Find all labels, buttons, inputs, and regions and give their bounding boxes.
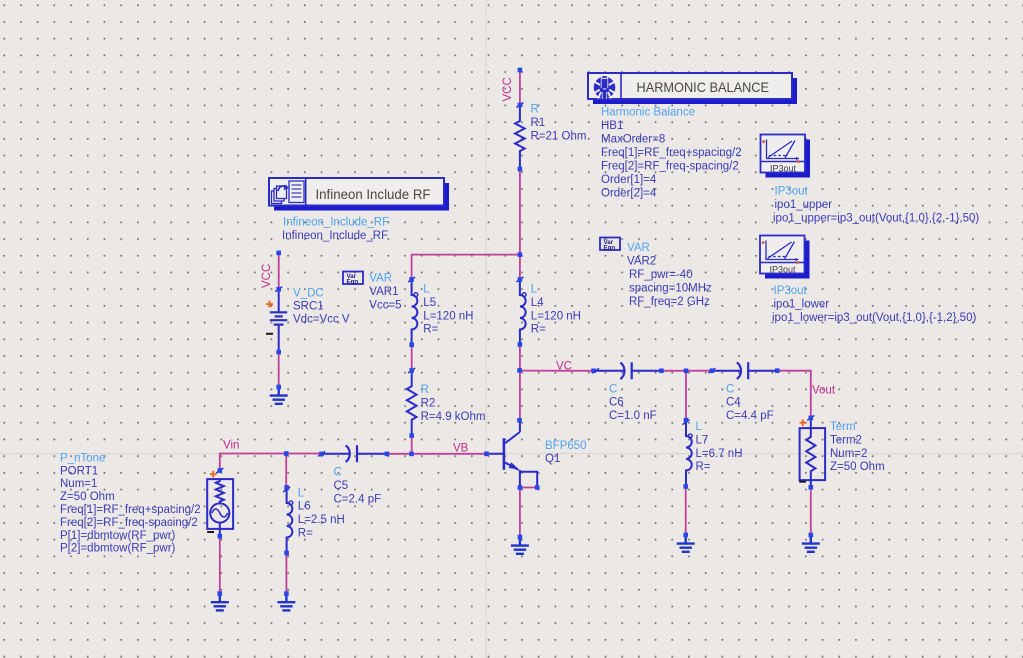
- wire R1 to trunk junction: [519, 169, 521, 255]
- label C4 values: [726, 383, 774, 422]
- ground under PORT1: [211, 594, 229, 611]
- svg-text:L: L: [423, 284, 430, 296]
- svg-text:C: C: [334, 467, 342, 479]
- pin ticks: [216, 103, 814, 493]
- svg-text:VCC: VCC: [261, 264, 273, 288]
- svg-text:Order[1]=4: Order[1]=4: [601, 174, 657, 186]
- wire VC junction to collector: [519, 370, 521, 420]
- svg-text:L: L: [298, 487, 305, 499]
- IP3out upper block: [761, 135, 811, 178]
- svg-text:R2: R2: [421, 397, 436, 409]
- svg-text:L=6.7 nH: L=6.7 nH: [696, 448, 743, 460]
- svg-text:PORT1: PORT1: [60, 465, 98, 477]
- label L6 values: [298, 487, 345, 539]
- resistor R2: [407, 371, 417, 436]
- svg-text:C: C: [609, 383, 617, 395]
- svg-text:Z=50 Ohm: Z=50 Ohm: [60, 491, 115, 503]
- label VAR2 values: [627, 242, 712, 308]
- svg-text:V_DC: V_DC: [293, 288, 324, 300]
- svg-text:P_nTone: P_nTone: [60, 452, 105, 464]
- svg-text:Vcc=5: Vcc=5: [369, 299, 401, 311]
- svg-text:R: R: [531, 104, 539, 116]
- wire SRC1 to ground: [278, 352, 280, 387]
- svg-text:RF_freq=2 GHz: RF_freq=2 GHz: [629, 296, 710, 308]
- svg-text:spacing=10MHz: spacing=10MHz: [629, 283, 712, 295]
- svg-text:Infineon Include RF: Infineon Include RF: [316, 186, 431, 202]
- svg-text:IP3out: IP3out: [770, 163, 797, 173]
- PORT1 minus sign: [207, 531, 214, 533]
- source V_DC SRC1: [270, 289, 287, 352]
- svg-text:Term2: Term2: [830, 434, 862, 446]
- label IP3out upper values: [773, 186, 979, 225]
- svg-text:C5: C5: [334, 480, 349, 492]
- svg-text:C: C: [726, 383, 734, 395]
- label R2 values: [421, 384, 486, 423]
- svg-text:C=2.4 pF: C=2.4 pF: [334, 493, 382, 505]
- wire Term2 to ground: [810, 487, 812, 535]
- page guide vertical line: [485, 0, 487, 658]
- svg-text:VB: VB: [453, 443, 469, 455]
- svg-text:HARMONIC BALANCE: HARMONIC BALANCE: [637, 79, 770, 95]
- svg-text:R1: R1: [531, 117, 546, 129]
- transistor Q1: [487, 420, 538, 487]
- svg-text:ipo1_upper: ipo1_upper: [775, 199, 833, 211]
- svg-text:C=1.0 nF: C=1.0 nF: [609, 410, 657, 422]
- label VAR1 values: [369, 273, 401, 312]
- wire emitter to ground: [519, 488, 521, 538]
- svg-text:IP3out: IP3out: [774, 285, 808, 297]
- svg-text:IP3out: IP3out: [775, 186, 809, 198]
- variables block VAR2: [600, 238, 620, 252]
- wire junction to L4: [519, 255, 521, 280]
- termination Term2: [800, 418, 826, 487]
- svg-text:R=: R=: [298, 528, 313, 540]
- wire L5 to R2: [411, 345, 413, 371]
- capacitor C5: [322, 445, 387, 462]
- svg-text:Infineon_Include_RF: Infineon_Include_RF: [282, 230, 388, 242]
- svg-text:P[1]=dbmtow(RF_pwr): P[1]=dbmtow(RF_pwr): [60, 530, 176, 542]
- wire trunk junction to L5 branch: [412, 255, 520, 280]
- capacitor C6: [594, 362, 662, 379]
- svg-text:BFP650: BFP650: [545, 440, 587, 452]
- ground under SRC1: [270, 387, 288, 404]
- Infineon include block: [269, 178, 449, 211]
- svg-text:L: L: [531, 284, 538, 296]
- label C5 values: [334, 467, 382, 506]
- label Q1 BFP650: [545, 440, 587, 465]
- label HB1 values: [601, 107, 742, 200]
- wire C4 to Vout corner to Term2: [777, 371, 811, 418]
- wire VC junction to C6: [520, 370, 594, 372]
- svg-text:R=21 Ohm: R=21 Ohm: [531, 130, 587, 142]
- svg-text:VAR: VAR: [627, 242, 650, 254]
- PORT1 plus sign: [210, 471, 217, 478]
- Term2 plus sign: [800, 419, 807, 426]
- svg-text:L=2.5 nH: L=2.5 nH: [298, 514, 345, 526]
- inductor L4: [520, 280, 526, 345]
- wire L6 branch down: [285, 454, 287, 488]
- wire VCC left to SRC1: [278, 253, 280, 289]
- svg-text:SRC1: SRC1: [293, 301, 324, 313]
- wire C5 to base VB: [387, 453, 487, 455]
- svg-text:L=120 nH: L=120 nH: [423, 310, 473, 322]
- svg-text:R=: R=: [696, 461, 711, 473]
- svg-text:L=120 nH: L=120 nH: [531, 310, 581, 322]
- svg-text:L6: L6: [298, 501, 311, 513]
- SRC1 minus sign: [266, 333, 273, 335]
- harmonic balance gear icon: [594, 76, 616, 100]
- svg-text:P[2]=dbmtow(RF_pwr): P[2]=dbmtow(RF_pwr): [60, 543, 176, 555]
- label L5 values: [423, 284, 473, 336]
- wire Vin segment PORT1 to C5: [220, 454, 322, 471]
- svg-text:RF_pwr=-40: RF_pwr=-40: [629, 269, 693, 281]
- wire junction down to L7: [685, 371, 687, 420]
- svg-text:VAR1: VAR1: [369, 286, 398, 298]
- svg-text:R=: R=: [423, 324, 438, 336]
- svg-text:Num=1: Num=1: [60, 478, 97, 490]
- svg-text:Q1: Q1: [545, 453, 560, 465]
- svg-text:VAR: VAR: [369, 273, 392, 285]
- svg-text:IP3out: IP3out: [770, 264, 797, 274]
- svg-text:L7: L7: [696, 434, 709, 446]
- IP3out lower block: [760, 236, 810, 279]
- Term2 minus sign: [799, 481, 806, 483]
- label R1 values: [531, 104, 587, 143]
- svg-text:MaxOrder=8: MaxOrder=8: [601, 134, 665, 146]
- svg-text:Freq[1]=RF_freq+spacing/2: Freq[1]=RF_freq+spacing/2: [60, 504, 201, 516]
- svg-text:R=4.9 kOhm: R=4.9 kOhm: [421, 411, 486, 423]
- svg-text:Order[2]=4: Order[2]=4: [601, 188, 657, 200]
- svg-text:Freq[2]=RF_freq-spacing/2: Freq[2]=RF_freq-spacing/2: [601, 161, 739, 173]
- svg-text:C=4.4 pF: C=4.4 pF: [726, 410, 774, 422]
- ground under L6: [277, 594, 295, 611]
- resistor R1: [515, 105, 525, 169]
- variables block VAR1: [343, 272, 363, 286]
- wire L6 to ground: [285, 553, 287, 594]
- svg-text:L4: L4: [531, 297, 544, 309]
- inductor L7: [686, 420, 692, 486]
- svg-text:Vin: Vin: [223, 440, 239, 452]
- Infineon include icon: [272, 181, 305, 204]
- label L7 values: [696, 421, 743, 473]
- wire PORT1 to ground: [219, 536, 221, 593]
- label Term2 values: [830, 421, 885, 473]
- port P_nTone PORT1: [207, 479, 233, 536]
- svg-text:Z=50 Ohm: Z=50 Ohm: [830, 461, 885, 473]
- svg-text:ipo1_lower: ipo1_lower: [774, 298, 830, 310]
- label Infineon_Include_RF: [282, 217, 389, 243]
- label L4 values: [531, 284, 581, 336]
- svg-text:VCC: VCC: [502, 77, 514, 101]
- page guide horizontal line: [0, 453, 1023, 455]
- svg-text:Vout: Vout: [812, 384, 836, 396]
- inductor L5: [412, 280, 418, 345]
- svg-text:C4: C4: [726, 397, 741, 409]
- svg-text:R=: R=: [531, 324, 546, 336]
- wire C6 to C4 through junction: [661, 370, 712, 372]
- wire R2 to VB junction: [411, 436, 413, 454]
- wire VCC to R1: [519, 70, 521, 105]
- ground under Term2: [802, 535, 820, 552]
- wire emitter jumper: [520, 487, 537, 489]
- svg-text:Eqn: Eqn: [347, 279, 359, 286]
- svg-text:L5: L5: [423, 297, 436, 309]
- svg-text:VC: VC: [556, 360, 572, 372]
- capacitor C4: [712, 362, 777, 379]
- ground under Q1 emitter: [511, 537, 529, 554]
- svg-text:VAR2: VAR2: [627, 256, 656, 268]
- svg-text:Freq[1]=RF_freq+spacing/2: Freq[1]=RF_freq+spacing/2: [601, 147, 742, 159]
- ground under L7: [677, 535, 695, 552]
- label C6 values: [609, 383, 657, 422]
- label PORT1 values: [60, 452, 201, 554]
- svg-text:Infineon_Include_RF: Infineon_Include_RF: [283, 217, 389, 229]
- svg-text:C6: C6: [609, 397, 624, 409]
- wire L4 to VC junction: [519, 345, 521, 371]
- svg-text:ipo1_upper=ip3_out(Vout,{1,0},: ipo1_upper=ip3_out(Vout,{1,0},{2,-1},50): [773, 212, 979, 224]
- svg-text:Num=2: Num=2: [830, 448, 867, 460]
- svg-text:ipo1_lower=ip3_out(Vout,{1,0},: ipo1_lower=ip3_out(Vout,{1,0},{-1,2},50): [772, 312, 976, 324]
- label IP3out lower values: [772, 285, 976, 324]
- svg-text:R: R: [421, 384, 429, 396]
- SRC1 plus sign: [266, 301, 273, 308]
- svg-text:L: L: [696, 421, 703, 433]
- svg-text:Term: Term: [830, 421, 856, 433]
- svg-text:Harmonic Balance: Harmonic Balance: [601, 107, 695, 119]
- inductor L6: [287, 487, 293, 553]
- svg-text:Freq[2]=RF_freq-spacing/2: Freq[2]=RF_freq-spacing/2: [60, 517, 198, 529]
- svg-text:Vdc=Vcc V: Vdc=Vcc V: [293, 314, 350, 326]
- wire L7 to ground: [685, 487, 687, 536]
- label SRC1 values: [293, 288, 350, 326]
- svg-text:HB1: HB1: [601, 120, 623, 132]
- harmonic balance controller block: [588, 73, 797, 104]
- svg-text:Eqn: Eqn: [604, 245, 616, 252]
- terminal and junction squares: [218, 68, 814, 596]
